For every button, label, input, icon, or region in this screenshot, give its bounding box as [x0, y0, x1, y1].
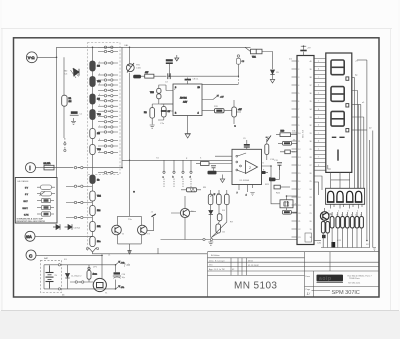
resistor row r1	[330, 217, 334, 229]
ground below U3	[250, 193, 254, 196]
svg-text:c: c	[182, 177, 183, 179]
driver transistor bell 4	[355, 191, 363, 202]
svg-text:12: 12	[298, 149, 300, 151]
svg-text:1k: 1k	[351, 215, 353, 217]
svg-text:b: b	[318, 69, 319, 71]
driver feed wires from U1	[314, 176, 322, 195]
wire fuse to contact	[54, 167, 74, 169]
svg-text:-Vth: -Vth	[121, 286, 125, 289]
svg-text:BAT: BAT	[44, 257, 49, 260]
input terminal V-ohm	[26, 52, 37, 63]
svg-text:500 V: 500 V	[23, 208, 29, 210]
dark component right of U3	[262, 171, 266, 174]
svg-text:21: 21	[310, 213, 312, 215]
IC U1 tall box	[297, 56, 314, 245]
wire I terminal to fuse	[36, 167, 45, 169]
display right stub 1	[352, 77, 355, 79]
resistor R1	[62, 95, 72, 106]
resistor chain R15	[90, 145, 102, 155]
svg-text:C4 Rail: C4 Rail	[74, 227, 81, 229]
svg-text:50 V: 50 V	[24, 201, 29, 203]
ground below U2	[185, 134, 191, 139]
bridge right wire	[140, 216, 142, 244]
svg-text:4: 4	[298, 85, 299, 87]
diode D5	[53, 224, 60, 229]
contact circles on bus	[203, 238, 205, 240]
svg-text:J.L.F. Le TM: J.L.F. Le TM	[214, 269, 225, 271]
svg-text:1k: 1k	[341, 215, 343, 217]
svg-text:RESISTAT DBL 600V RATIO: RESISTAT DBL 600V RATIO	[17, 220, 46, 223]
switch stroke 1	[236, 153, 246, 163]
svg-text:22: 22	[310, 205, 312, 207]
svg-text:23: 23	[310, 197, 312, 199]
svg-text:10k: 10k	[97, 226, 100, 228]
-V arrow bottom	[116, 286, 125, 290]
U2 right pin wire to +V arrow	[202, 95, 224, 100]
crystal Y1 box	[280, 200, 293, 208]
svg-text:2: 2	[249, 166, 251, 170]
AOIP logo	[317, 275, 344, 283]
wire vertical x=56.5	[56, 47, 58, 177]
wires R2 R3	[152, 104, 173, 125]
svg-text:1: 1	[329, 211, 330, 213]
svg-text:Veri: Veri	[209, 265, 213, 267]
display right stub 2	[352, 104, 361, 106]
svg-text:30: 30	[310, 141, 312, 143]
cluster wires down	[323, 228, 361, 248]
svg-text:Bt Edition: Bt Edition	[211, 254, 220, 257]
display bottom-left mark	[328, 165, 331, 169]
bus line 1b	[352, 91, 358, 189]
svg-text:3: 3	[298, 77, 299, 79]
legend rows	[23, 185, 56, 216]
svg-text:1k: 1k	[336, 215, 338, 217]
bus line 1	[354, 78, 356, 189]
stub node 191	[190, 160, 193, 188]
wire dashed x=64.9	[64, 138, 66, 152]
stacked resistor pair below T5	[321, 222, 329, 234]
bottom wire IC to cluster	[314, 240, 321, 242]
junction dot x134	[133, 191, 135, 193]
title block small texts	[209, 254, 259, 271]
U3 right pin wires	[262, 166, 272, 172]
bus line 3 top stub	[357, 59, 367, 61]
input resistor R40	[196, 162, 209, 166]
wire bus to thyristor	[129, 47, 131, 64]
bus line 2	[360, 105, 362, 189]
svg-text:E. Lecuyer: E. Lecuyer	[215, 260, 225, 262]
resistor R30 dark	[133, 75, 141, 79]
svg-text:21.12.19.82: 21.12.19.82	[247, 265, 259, 267]
wire 10A row	[35, 235, 93, 237]
resistor row r2	[336, 217, 340, 229]
resistor chain R12	[90, 94, 100, 104]
oscillator wires	[271, 186, 297, 212]
svg-text:4.2V: 4.2V	[183, 102, 188, 104]
vertical wire x=122	[121, 47, 123, 167]
bus wire y=160.3	[122, 159, 232, 161]
svg-text:C8 0.1: C8 0.1	[193, 79, 200, 81]
resistor chain R18	[90, 206, 101, 216]
seven segment digit 3	[331, 111, 344, 126]
U1 top power cap	[300, 46, 311, 55]
svg-text:a: a	[318, 61, 319, 63]
resistor R3 vertical	[162, 107, 171, 118]
svg-text:27: 27	[310, 165, 312, 167]
U1 left pin stubs	[292, 61, 298, 237]
switch stroke 2	[236, 165, 246, 173]
resistor row r7	[360, 217, 364, 229]
capacitor C3	[165, 73, 170, 83]
svg-text:AD 584: AD 584	[180, 97, 188, 100]
svg-text:19: 19	[310, 229, 312, 231]
pin tick labels between IC and display	[318, 61, 319, 167]
junction dot	[129, 160, 130, 161]
capacitor above U2	[185, 78, 200, 85]
svg-text:17: 17	[298, 189, 300, 191]
svg-text:2: 2	[298, 69, 299, 71]
bus line 3b	[368, 140, 370, 248]
svg-text:11: 11	[298, 141, 300, 143]
input terminal I	[26, 163, 36, 173]
diode D8	[209, 211, 213, 215]
bottom bus of cluster	[321, 247, 370, 249]
fuse F2	[251, 49, 263, 58]
fuse jog	[245, 47, 251, 51]
svg-text:1M: 1M	[97, 66, 100, 68]
resistor chain R13	[90, 110, 102, 120]
bridge left wire	[117, 216, 119, 244]
wire C5 down	[237, 64, 239, 76]
svg-text:a: a	[318, 117, 319, 119]
svg-text:1k: 1k	[331, 215, 333, 217]
driver box bottom pins	[331, 204, 362, 208]
wire chain bottom to right	[93, 252, 208, 254]
misc labels	[44, 44, 372, 297]
svg-text:4mm: 4mm	[93, 274, 98, 276]
resistor R64	[216, 224, 221, 233]
svg-text:21: 21	[298, 221, 300, 223]
svg-text:32: 32	[310, 125, 312, 127]
IC U2 AD584 box	[173, 84, 202, 116]
LED indicator	[87, 265, 97, 282]
svg-text:SPM 307lC: SPM 307lC	[332, 290, 360, 296]
ground mark right	[373, 248, 376, 251]
svg-text:25: 25	[310, 181, 312, 183]
wire node down dashed	[237, 76, 239, 84]
vertical component C12	[265, 139, 269, 160]
U1 pin numbers left column	[298, 61, 300, 239]
resistor pair left of U2	[150, 85, 166, 104]
cluster wires up	[332, 212, 361, 217]
wire cap to node	[170, 75, 238, 77]
dashed enclosure left continuation	[87, 175, 89, 252]
svg-text:d: d	[318, 141, 319, 143]
U2 bottom pin wire	[187, 116, 189, 134]
arrow mark near T4	[210, 193, 215, 196]
svg-text:CAL RANGE: CAL RANGE	[17, 180, 29, 183]
switch contact row 202.5	[66, 201, 92, 203]
paper top edge	[1, 28, 392, 30]
svg-text:9: 9	[298, 125, 299, 127]
svg-text:14: 14	[298, 165, 300, 167]
resistor row r6	[355, 217, 359, 229]
svg-text:2: 2	[99, 73, 100, 75]
resistor row r3	[341, 217, 345, 229]
switch contact bottom row	[70, 281, 93, 283]
svg-text:13: 13	[298, 157, 300, 159]
switch contact rows	[98, 46, 118, 174]
wires to ground node	[210, 190, 227, 238]
+V arrow top	[116, 261, 125, 265]
svg-text:6: 6	[298, 101, 299, 103]
svg-text:7: 7	[99, 125, 100, 127]
diode D10 vertical	[65, 265, 82, 289]
vertical rail x=115.5	[115, 265, 117, 289]
svg-text:38: 38	[310, 77, 312, 79]
svg-text:3: 3	[99, 83, 100, 85]
svg-text:n: n	[235, 126, 236, 128]
thyristor TH1	[126, 63, 141, 73]
resistor row r5	[350, 217, 354, 229]
AOIP address text	[348, 275, 373, 285]
svg-text:Dess: Dess	[306, 276, 311, 278]
zener diode DZ1 with hatch	[65, 69, 80, 79]
transistor T3	[138, 225, 151, 235]
capacitor C13	[274, 160, 282, 170]
svg-text:b: b	[318, 125, 319, 127]
transistor T2	[112, 225, 125, 235]
U2 left pin wires	[161, 91, 174, 112]
svg-text:1M: 1M	[97, 133, 100, 135]
resistor R61 vertical	[217, 194, 222, 205]
pin labels right column of U1	[310, 61, 312, 239]
svg-text:36: 36	[310, 93, 312, 95]
svg-text:19: 19	[298, 205, 300, 207]
long bottom bus wire	[161, 239, 298, 241]
ground below inputs	[220, 175, 224, 183]
node dot	[238, 76, 239, 77]
svg-text:1k: 1k	[97, 180, 99, 182]
svg-text:35: 35	[310, 101, 312, 103]
diode D6	[65, 224, 81, 229]
display box	[326, 53, 352, 172]
svg-text:29: 29	[310, 149, 312, 151]
resistor chain R10	[90, 61, 100, 71]
svg-text:MN 5103: MN 5103	[234, 281, 277, 292]
svg-text:1: 1	[99, 61, 100, 63]
wires right cluster	[269, 165, 280, 186]
svg-text:+Vth: +Vth	[121, 262, 125, 265]
svg-text:d: d	[190, 177, 191, 179]
svg-text:18: 18	[310, 237, 312, 239]
svg-text:V·Ω: V·Ω	[28, 56, 35, 60]
paper bottom edge	[1, 310, 399, 312]
resistor chain R17	[90, 191, 102, 201]
svg-text:1k: 1k	[355, 215, 357, 217]
driver transistor bell 3	[346, 191, 354, 202]
ground symbol center	[208, 240, 213, 246]
dashed battery enclosure	[41, 260, 62, 292]
overflow digit 1 bar	[337, 150, 339, 161]
svg-text:ICL 8052A: ICL 8052A	[240, 179, 250, 182]
contact circle on bus right	[210, 238, 212, 240]
svg-text:37: 37	[310, 85, 312, 87]
svg-text:1k: 1k	[360, 215, 362, 217]
resistor R34 vertical	[224, 100, 242, 128]
resistor chain R16	[90, 175, 99, 184]
wire fuse to corner	[262, 52, 273, 70]
resistor R33 dark	[202, 106, 224, 113]
U3 bottom pins	[237, 185, 253, 197]
U3 left input wires	[205, 156, 232, 171]
node circle	[64, 149, 66, 151]
svg-text:SI BRANCHE A 230V SUP: SI BRANCHE A 230V SUP	[17, 217, 44, 220]
T4 wires	[171, 196, 196, 240]
page cell divider line	[312, 290, 331, 292]
driver box frame	[326, 188, 365, 204]
svg-text:g: g	[318, 109, 319, 111]
trimmer diagonal mark	[266, 136, 272, 143]
svg-text:28: 28	[310, 157, 312, 159]
chain vertical wire	[92, 48, 94, 243]
ground below diode D2	[270, 75, 274, 84]
bus line 3	[366, 60, 368, 241]
svg-text:1:1.25A: 1:1.25A	[44, 162, 52, 165]
svg-text:Tel: 581.11.11: Tel: 581.11.11	[348, 283, 361, 285]
svg-text:23: 23	[298, 237, 300, 239]
electrolytic cap dark small	[322, 235, 326, 238]
resistor R60 vertical	[208, 194, 213, 205]
wire stub x158 down	[157, 248, 159, 254]
svg-text:20: 20	[310, 221, 312, 223]
top bus wire	[57, 46, 251, 48]
title block outline	[208, 252, 379, 297]
transistor T5	[320, 212, 331, 221]
svg-text:aoip: aoip	[319, 276, 332, 282]
U1 inner small box bottom	[305, 233, 312, 242]
resistor chain R11	[90, 77, 102, 87]
bus line 2b	[352, 117, 364, 188]
svg-text:75340 Paris: 75340 Paris	[349, 278, 360, 280]
svg-text:40: 40	[310, 61, 312, 63]
cluster value labels	[331, 215, 362, 217]
svg-text:26: 26	[310, 173, 312, 175]
scanner background strip bottom	[0, 311, 400, 339]
svg-text:1M: 1M	[69, 101, 72, 103]
motor-converter circle T1	[93, 278, 108, 294]
U3 top capacitor	[243, 138, 250, 149]
svg-text:16: 16	[298, 181, 300, 183]
capacitor C16 dark	[113, 272, 126, 279]
resistor chain R20	[90, 237, 101, 247]
switch contact row 186	[66, 185, 92, 187]
driver transistor bell 2	[336, 191, 344, 202]
resistor R62 vertical	[225, 194, 230, 205]
svg-text:g: g	[318, 165, 319, 167]
resistor R2 vertical	[144, 108, 155, 119]
capacitor C1 polarized	[70, 111, 83, 115]
svg-text:10A: 10A	[26, 235, 33, 239]
input terminal C	[26, 250, 36, 260]
svg-text:15: 15	[298, 173, 300, 175]
svg-text:1: 1	[298, 61, 299, 63]
decimal point 1	[346, 77, 349, 80]
ground below R2	[150, 125, 155, 128]
svg-text:1k: 1k	[346, 215, 348, 217]
wire from V-ohm terminal	[37, 56, 56, 58]
svg-text:3: 3	[348, 211, 349, 213]
bridge top wire	[118, 215, 142, 217]
svg-text:d: d	[318, 85, 319, 87]
resistor R51 dark	[278, 141, 297, 145]
paper right edge	[390, 28, 392, 311]
seven segment digit 1	[331, 60, 344, 75]
svg-text:6: 6	[99, 115, 100, 117]
U1-display pin wires	[314, 59, 326, 171]
svg-text:e: e	[318, 149, 319, 151]
svg-text:33: 33	[310, 117, 312, 119]
svg-text:9: 9	[99, 151, 100, 153]
svg-text:0.7%: 0.7%	[24, 214, 29, 216]
legend box frame	[15, 178, 57, 224]
fuse F1 on I line	[44, 162, 55, 170]
contact on dashed box bottom	[58, 288, 60, 290]
seven segment digit 2	[331, 87, 344, 102]
drawing frame	[14, 38, 380, 297]
wire to reference box top	[202, 83, 238, 85]
decimal point 3	[346, 129, 349, 132]
resistor R50	[276, 131, 297, 137]
svg-text:ICL 7106: ICL 7106	[301, 130, 303, 139]
resistor R31	[145, 72, 154, 78]
chain bottom V junction	[86, 248, 98, 253]
svg-text:2: 2	[338, 211, 339, 213]
svg-text:39: 39	[310, 69, 312, 71]
power rail stubs	[44, 265, 50, 289]
svg-text:34: 34	[310, 109, 312, 111]
stub node 183	[182, 160, 185, 188]
resistor R42 horizontal	[181, 188, 201, 192]
schematic sheet content	[14, 38, 380, 297]
battery B1	[46, 266, 58, 288]
wire vertical x=64	[63, 57, 65, 95]
capacitor C2 dark top	[166, 59, 173, 76]
small component C5 vertical	[236, 55, 245, 64]
resistor R63	[217, 214, 222, 221]
resistor chain R14	[90, 129, 100, 139]
T5 wires	[324, 208, 326, 222]
svg-text:ƒ ch: ƒ ch	[124, 263, 130, 267]
dashed switch enclosure	[88, 43, 121, 175]
input resistor R41 dark	[208, 171, 217, 175]
bridge bottom wire	[118, 243, 142, 245]
svg-text:31: 31	[310, 133, 312, 135]
svg-text:4: 4	[99, 94, 100, 96]
wire C circle	[36, 255, 102, 278]
svg-text:18: 18	[298, 197, 300, 199]
wire vertical x=64 lower	[63, 107, 65, 139]
svg-text:20: 20	[298, 213, 300, 215]
decimal point 2	[346, 104, 349, 107]
svg-text:I: I	[29, 166, 30, 172]
minus sign segments	[332, 136, 345, 138]
svg-text:8: 8	[298, 117, 299, 119]
stub node 164	[163, 160, 166, 188]
svg-text:CL.Volant 2: CL.Volant 2	[71, 275, 82, 278]
node circle	[64, 143, 66, 145]
IC U3 ICL8052 box	[232, 149, 262, 184]
